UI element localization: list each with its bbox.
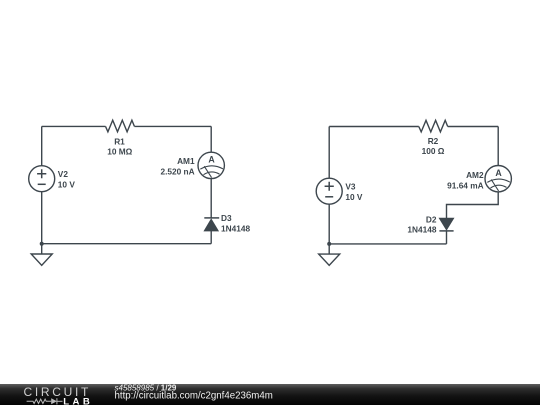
node: ground junction dot right	[327, 242, 331, 246]
svg-text:91.64 mA: 91.64 mA	[447, 180, 483, 190]
svg-text:D3: D3	[221, 213, 232, 223]
ground symbol right	[319, 254, 340, 265]
resistor R2 zigzag	[419, 120, 448, 132]
wire: AM1 to D3	[210, 179, 212, 218]
wire: AM2 bottom jog to D2	[447, 192, 499, 218]
ammeter AM2	[485, 166, 511, 192]
wire: top-left vertical branch to V2	[41, 126, 43, 165]
wire: AM1 branch upper	[210, 126, 212, 152]
svg-text:AM1: AM1	[177, 156, 195, 166]
svg-text:D2: D2	[426, 214, 437, 224]
svg-text:10 V: 10 V	[345, 192, 363, 202]
diode D3	[204, 218, 219, 231]
svg-text:R2: R2	[428, 136, 439, 146]
wire: top horizontal left segment	[329, 126, 419, 128]
svg-text:1N4148: 1N4148	[221, 224, 250, 234]
ground symbol left	[31, 254, 52, 265]
svg-text:100 Ω: 100 Ω	[422, 146, 445, 156]
wire: bottom horizontal	[42, 243, 212, 245]
wire: top-left vertical branch to V3	[328, 127, 330, 179]
wire: ground stub right	[328, 244, 330, 254]
wire: D3 to bottom wire	[210, 231, 212, 244]
svg-text:2.520 nA: 2.520 nA	[160, 167, 194, 177]
svg-text:1N4148: 1N4148	[407, 224, 436, 234]
wire: top horizontal right segment	[134, 125, 211, 127]
wire: D2 to bottom wire	[446, 231, 448, 244]
wire: ground stub	[41, 244, 43, 254]
logo schematic glyph: resistor + diode line	[27, 398, 63, 404]
wire: V3 bottom to ground node	[328, 204, 330, 244]
svg-text:10 V: 10 V	[58, 180, 76, 190]
svg-text:R1: R1	[114, 136, 125, 146]
wire: bottom horizontal	[329, 243, 446, 245]
diode D2	[439, 218, 453, 231]
node: ground junction dot left	[40, 242, 44, 246]
svg-text:V3: V3	[345, 182, 356, 192]
wire: top horizontal right segment	[448, 126, 499, 128]
voltage source V3	[316, 178, 342, 204]
wire: top horizontal left segment	[42, 125, 106, 127]
svg-text:V2: V2	[58, 169, 69, 179]
svg-text:A: A	[495, 168, 502, 178]
wire: V2 bottom to ground node	[41, 192, 43, 244]
wire: AM2 branch upper	[497, 127, 499, 166]
svg-text:10 MΩ: 10 MΩ	[107, 146, 132, 156]
resistor R1 zigzag	[106, 120, 135, 132]
ammeter AM1	[198, 152, 224, 178]
svg-text:A: A	[208, 155, 215, 165]
voltage source V2	[29, 166, 55, 192]
svg-text:LAB: LAB	[63, 396, 93, 405]
svg-text:AM2: AM2	[466, 170, 484, 180]
svg-text:http://circuitlab.com/c2gnf4e2: http://circuitlab.com/c2gnf4e236m4m	[115, 391, 273, 402]
